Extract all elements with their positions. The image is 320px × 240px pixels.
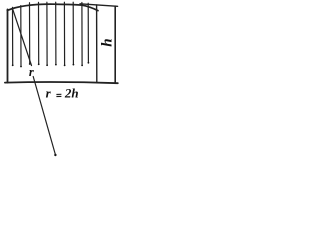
hatch line 8	[72, 2, 74, 64]
hatch blob 10	[88, 62, 90, 64]
pointer end blob	[54, 154, 56, 156]
hatch line 1	[12, 7, 14, 65]
hatch blob 9	[81, 65, 83, 67]
hatch blob 6	[55, 64, 57, 66]
top-right horizontal line	[80, 4, 118, 7]
equals sign bottom bar	[56, 95, 61, 97]
right column right wall	[114, 6, 116, 83]
svg-text:h: h	[99, 38, 115, 46]
hatch line 9	[81, 3, 83, 66]
hatch line 4	[38, 2, 40, 64]
hatch line 3	[29, 3, 31, 64]
hatch blob 5	[46, 64, 48, 66]
hatch blob 2	[20, 66, 22, 68]
radius leader line upper segment	[13, 10, 32, 66]
hatch blob 7	[64, 65, 66, 67]
bottom edge	[5, 82, 118, 83]
hatch line 7	[63, 2, 65, 65]
mound arc (curved top of pile)	[7, 4, 98, 10]
hatch blob 3	[29, 63, 31, 65]
hatch line 5	[46, 2, 48, 65]
hatch blob 8	[73, 64, 75, 66]
hatch line 6	[55, 2, 57, 64]
svg-text:2h: 2h	[64, 85, 79, 100]
hatch blob 1	[12, 64, 14, 66]
svg-text:r: r	[29, 65, 34, 79]
hatch line 2	[20, 6, 22, 67]
hatch blob 4	[38, 63, 40, 65]
equals sign top bar	[56, 93, 61, 95]
right column left wall	[96, 5, 98, 83]
hatch line 10	[87, 3, 89, 63]
svg-text:r: r	[46, 85, 52, 100]
left wall	[7, 9, 9, 82]
pointer line lower segment	[33, 77, 55, 156]
